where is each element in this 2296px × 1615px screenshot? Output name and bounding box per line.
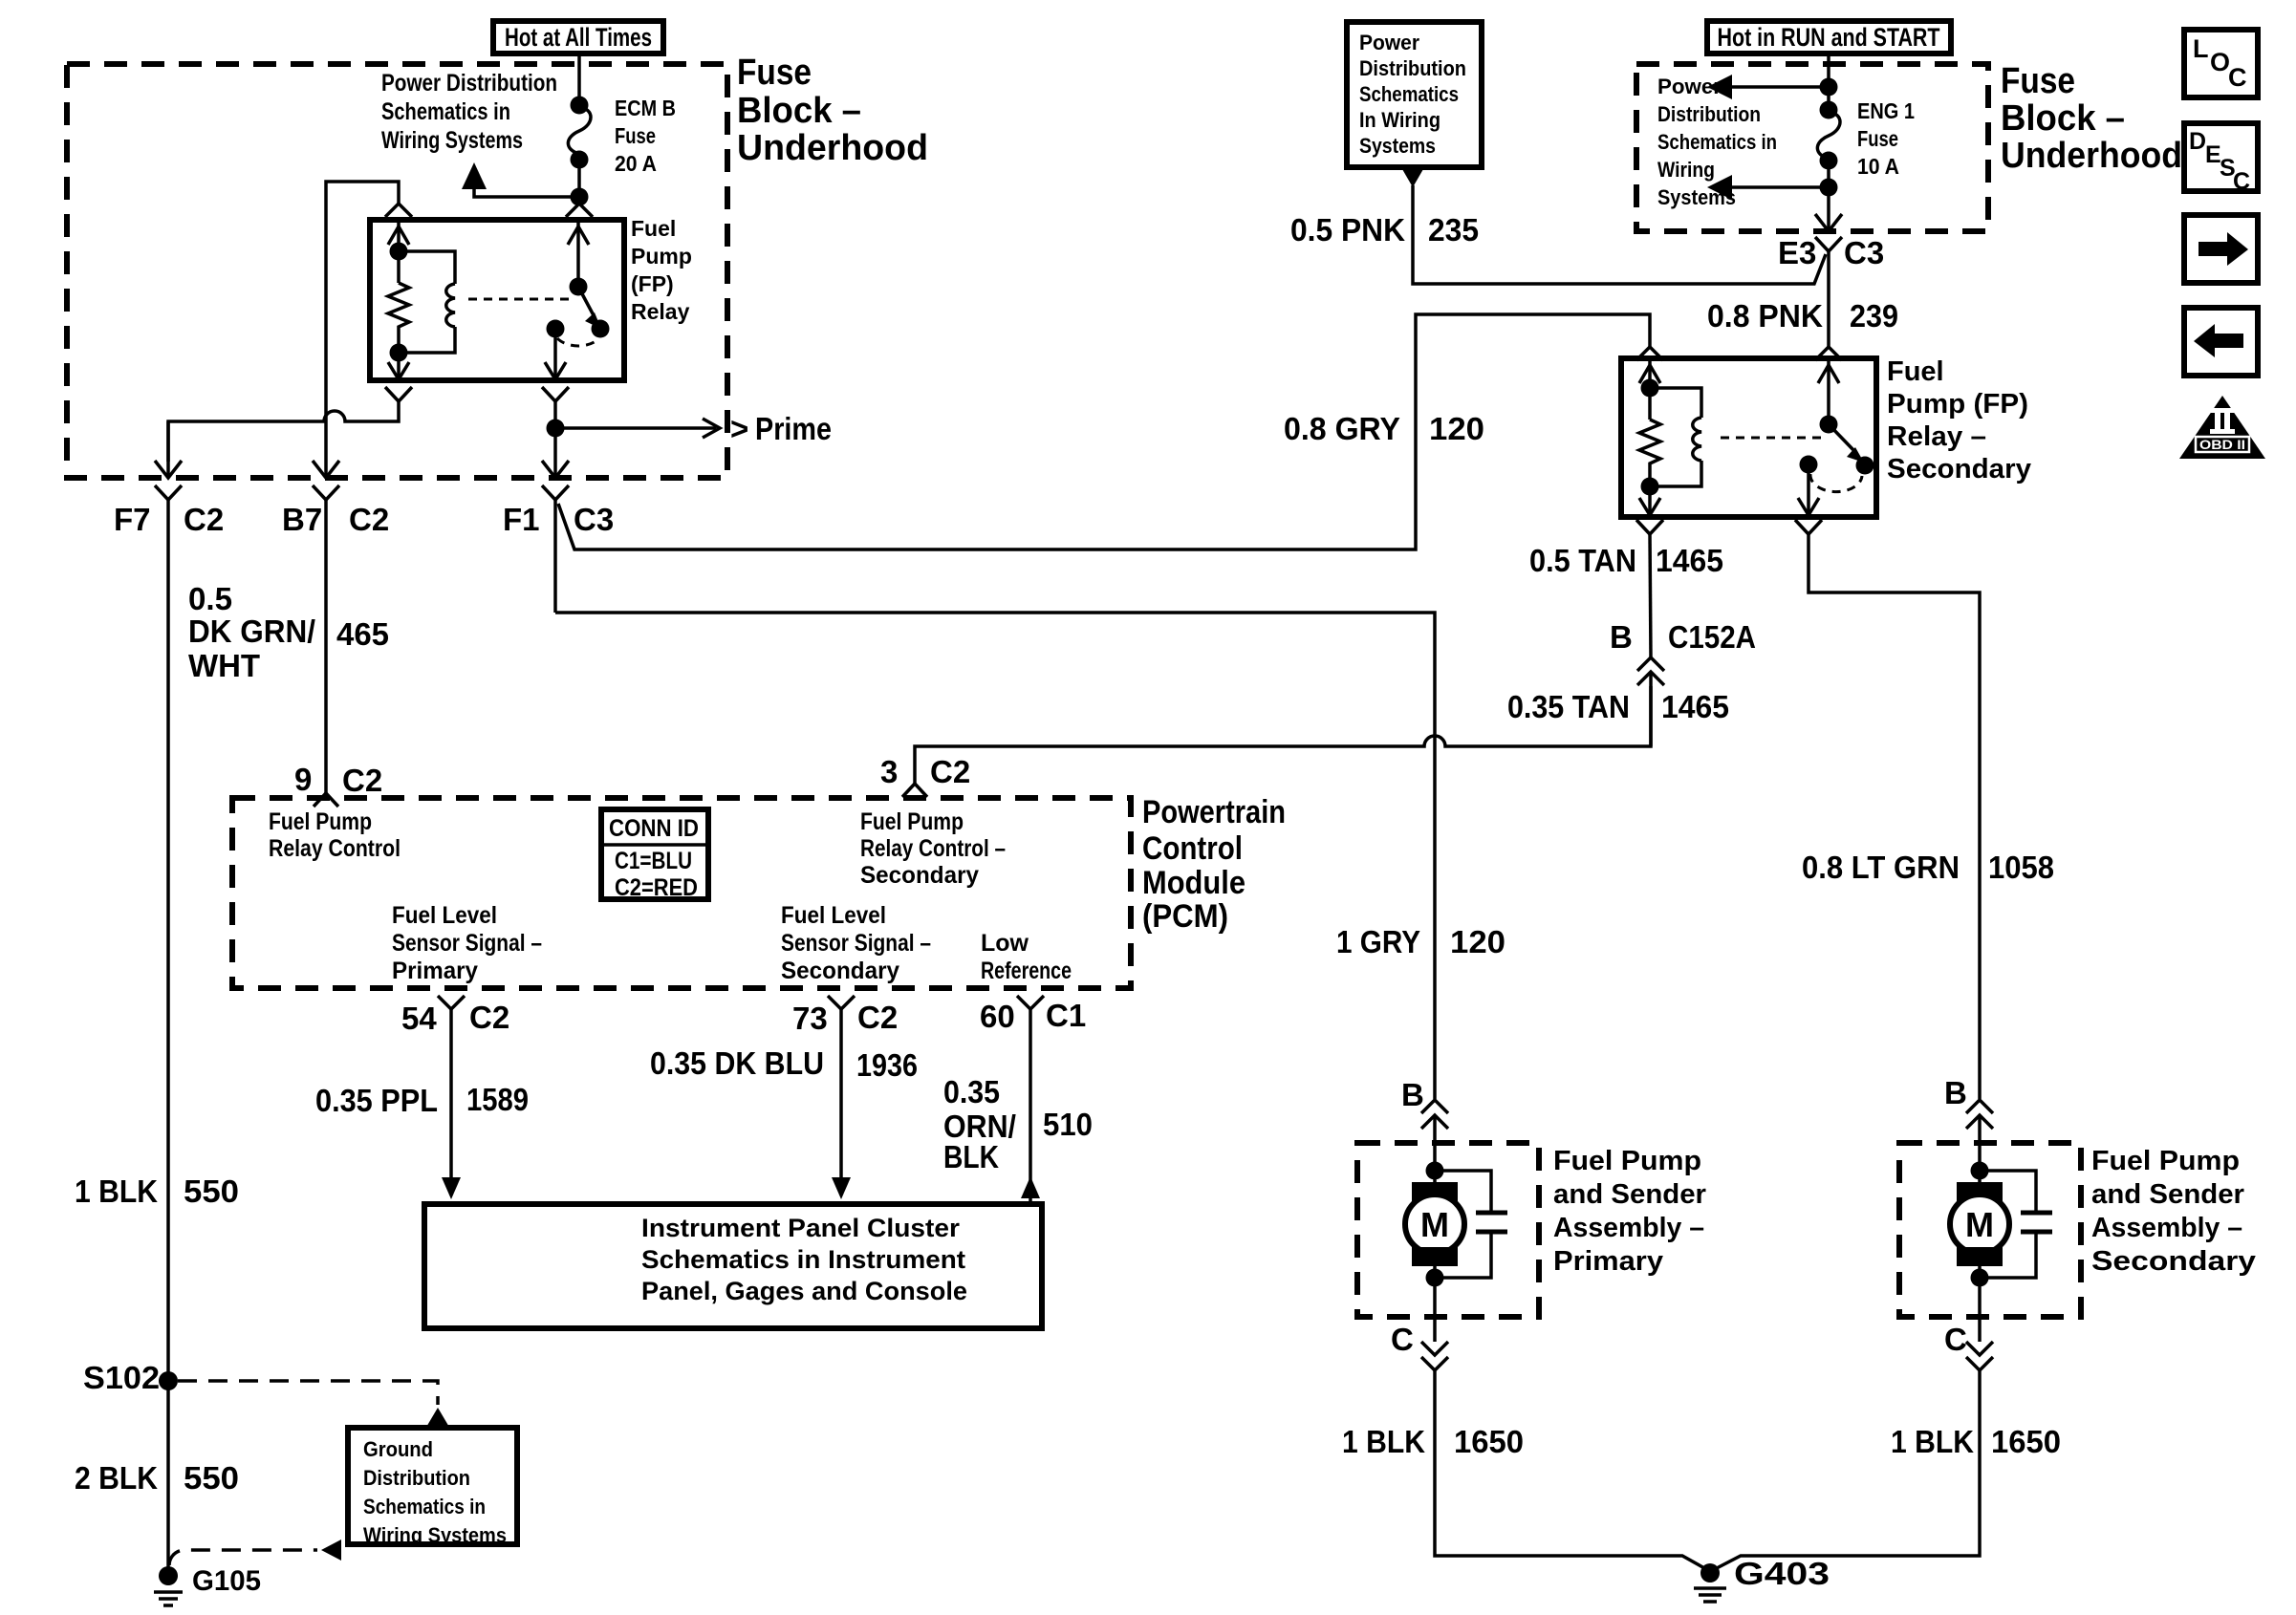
connector E3 C3 <box>1815 237 1842 347</box>
svg-text:Underhood: Underhood <box>737 128 928 168</box>
svg-text:Fuel Pump: Fuel Pump <box>2091 1146 2240 1176</box>
Hot in RUN and START box <box>1707 21 1951 54</box>
svg-text:1 BLK: 1 BLK <box>1891 1424 1974 1459</box>
svg-text:Fuel Pump: Fuel Pump <box>1553 1146 1701 1176</box>
svg-text:Pump: Pump <box>631 244 692 269</box>
labels F7 C2 B7 C2 <box>114 502 389 537</box>
splice S102 <box>83 1360 178 1395</box>
svg-text:Powertrain: Powertrain <box>1142 794 1286 830</box>
svg-text:550: 550 <box>184 1460 239 1496</box>
svg-text:Fuse: Fuse <box>615 123 656 148</box>
svg-text:1465: 1465 <box>1656 543 1723 578</box>
svg-text:Panel, Gages and Console: Panel, Gages and Console <box>641 1277 967 1305</box>
svg-text:235: 235 <box>1428 212 1479 248</box>
svg-text:Reference: Reference <box>981 958 1072 984</box>
svg-text:L: L <box>2193 34 2209 63</box>
labels B C152A <box>1610 619 1756 655</box>
svg-text:Schematics in: Schematics in <box>1657 130 1777 154</box>
PCM pin 73 wire with arrow <box>832 1009 851 1199</box>
svg-text:S102: S102 <box>83 1360 160 1395</box>
svg-text:Module: Module <box>1142 865 1245 901</box>
svg-text:1465: 1465 <box>1661 689 1729 724</box>
icon next arrow button <box>2184 215 2258 283</box>
wire relay1 pin to F7 with hop <box>168 401 399 462</box>
label Fuse Block Underhood left <box>737 53 928 168</box>
svg-text:Wiring Systems: Wiring Systems <box>363 1523 507 1547</box>
svg-text:120: 120 <box>1450 924 1505 959</box>
icon OBD II triangle <box>2179 396 2265 459</box>
svg-text:0.5: 0.5 <box>188 581 232 616</box>
svg-text:510: 510 <box>1043 1107 1093 1142</box>
svg-text:Underhood: Underhood <box>2001 136 2182 176</box>
svg-text:C2: C2 <box>342 763 382 798</box>
label 0.5 DK GRN WHT 465 <box>188 581 389 683</box>
svg-text:Fuse: Fuse <box>2001 61 2075 101</box>
label ENG 1 Fuse 10 A <box>1857 98 1915 179</box>
label 1 BLK 1650 secondary <box>1891 1424 2061 1459</box>
svg-text:Fuse: Fuse <box>737 53 812 93</box>
svg-text:C2=RED: C2=RED <box>615 874 698 901</box>
svg-text:B7: B7 <box>282 502 322 537</box>
connector C primary pump <box>1391 1317 1448 1370</box>
svg-text:1 BLK: 1 BLK <box>1342 1424 1425 1459</box>
icon DESC button <box>2184 123 2258 195</box>
svg-text:2 BLK: 2 BLK <box>75 1460 158 1496</box>
label 0.8 GRY 120 <box>1284 411 1484 446</box>
svg-text:Fuse: Fuse <box>1857 126 1898 151</box>
wire F1 through dashed edge <box>542 428 569 478</box>
svg-text:CONN ID: CONN ID <box>609 815 699 842</box>
svg-text:1058: 1058 <box>1988 850 2054 885</box>
svg-text:Fuel: Fuel <box>631 216 676 241</box>
svg-text:1650: 1650 <box>1991 1424 2061 1459</box>
svg-text:Systems: Systems <box>1359 134 1436 158</box>
wire B7 to PCM pin 9 <box>324 522 328 793</box>
svg-text:B: B <box>1401 1077 1424 1112</box>
svg-text:0.5 TAN: 0.5 TAN <box>1529 543 1636 578</box>
svg-text:Sensor Signal –: Sensor Signal – <box>392 930 542 957</box>
svg-text:DK GRN/: DK GRN/ <box>188 614 315 649</box>
svg-text:1 BLK: 1 BLK <box>75 1174 158 1209</box>
svg-text:9: 9 <box>294 762 312 797</box>
svg-text:Secondary: Secondary <box>860 862 979 889</box>
svg-text:239: 239 <box>1850 298 1898 334</box>
svg-text:OBD II: OBD II <box>2199 437 2245 452</box>
label 2 BLK 550 <box>75 1460 239 1496</box>
relay1 coil bottom node <box>388 344 409 380</box>
note Power Distribution Schematics left fuse block <box>381 70 557 154</box>
relay1 coil left branch <box>388 220 409 283</box>
connector PCM pin 3 <box>902 784 927 797</box>
svg-text:0.35: 0.35 <box>943 1074 1000 1109</box>
svg-text:Hot at All Times: Hot at All Times <box>505 23 652 52</box>
svg-text:>: > <box>730 411 748 446</box>
relay2 coil branch <box>1639 358 1660 420</box>
svg-text:D: D <box>2189 128 2206 155</box>
svg-text:0.35 TAN: 0.35 TAN <box>1507 689 1630 724</box>
wire PCM pin3 to 0.35 TAN run with hop <box>915 686 1651 784</box>
note Power Distribution Schematics right fuse block <box>1657 75 1777 209</box>
arrow F7 at dashed edge <box>155 421 182 478</box>
svg-text:54: 54 <box>401 1001 437 1036</box>
label 0.8 PNK 239 <box>1707 298 1898 334</box>
svg-text:WHT: WHT <box>188 648 260 683</box>
svg-text:C: C <box>1944 1322 1967 1357</box>
primary pump capacitor <box>1435 1171 1507 1278</box>
Power Distribution Schematics box top middle <box>1347 22 1482 167</box>
relay2 box Fuel Pump FP Relay Secondary <box>1621 358 1876 517</box>
svg-text:Instrument Panel Cluster: Instrument Panel Cluster <box>641 1214 961 1242</box>
svg-text:Wiring: Wiring <box>1657 158 1715 182</box>
upper branch arrow right fuse block <box>1707 75 1838 99</box>
svg-text:0.8 PNK: 0.8 PNK <box>1707 298 1823 334</box>
PCM pin9 function text <box>269 808 401 862</box>
label 0.35 TAN 1465 <box>1507 689 1729 724</box>
svg-text:Secondary: Secondary <box>781 958 899 984</box>
svg-text:0.5 PNK: 0.5 PNK <box>1290 212 1405 248</box>
connector B secondary pump <box>1944 1075 1993 1143</box>
ground G403 <box>1694 1556 1830 1602</box>
label 0.5 TAN 1465 <box>1529 543 1723 578</box>
connector C152A double chevron <box>1637 657 1664 746</box>
connector below relay2 switch pin <box>1795 520 1822 534</box>
dashed reference from S102 to ground distribution box <box>178 1381 450 1429</box>
connector chevron relay1 right pin <box>566 204 593 217</box>
svg-text:Block –: Block – <box>737 91 861 131</box>
label 0.8 LT GRN 1058 <box>1802 850 2054 885</box>
svg-text:C: C <box>2233 168 2250 195</box>
svg-text:Schematics in: Schematics in <box>363 1495 486 1518</box>
svg-text:120: 120 <box>1429 411 1484 446</box>
relay1 box Fuel Pump FP Relay <box>370 220 624 380</box>
svg-text:B: B <box>1610 619 1633 655</box>
instrument panel cluster box <box>424 1204 1042 1328</box>
svg-text:(FP): (FP) <box>631 271 674 296</box>
secondary pump capacitor <box>1980 1171 2052 1278</box>
svg-text:465: 465 <box>336 616 389 652</box>
svg-text:BLK: BLK <box>943 1139 999 1174</box>
svg-text:C3: C3 <box>1844 235 1884 270</box>
svg-text:F1: F1 <box>503 502 540 537</box>
labels 9 C2 pin9 <box>294 762 382 798</box>
connector PCM pin 9 <box>314 793 338 807</box>
svg-text:C2: C2 <box>857 1000 898 1035</box>
svg-text:1 GRY: 1 GRY <box>1336 924 1420 959</box>
svg-text:C2: C2 <box>349 502 389 537</box>
svg-text:0.35 PPL: 0.35 PPL <box>315 1083 438 1118</box>
relay1 switch <box>545 220 610 379</box>
secondary pump dashed box <box>1899 1143 2081 1317</box>
svg-text:Control: Control <box>1142 830 1243 867</box>
connector F1 <box>542 485 569 613</box>
svg-text:G403: G403 <box>1734 1556 1830 1591</box>
label 0.35 PPL 1589 <box>315 1082 529 1118</box>
svg-text:Fuel Pump: Fuel Pump <box>860 808 964 835</box>
label Fuse Block Underhood right <box>2001 61 2182 176</box>
connector chevron relay2 switch pin <box>1815 347 1842 360</box>
connector C secondary pump <box>1944 1317 1993 1370</box>
svg-text:M: M <box>1420 1205 1449 1244</box>
svg-text:Primary: Primary <box>392 958 478 984</box>
label 0.5 PNK 235 <box>1290 212 1479 248</box>
relay2 switch <box>1798 358 1874 515</box>
label Fuel Pump and Sender Assembly Primary <box>1553 1146 1706 1277</box>
labels 60 C1 <box>980 998 1086 1034</box>
ground distribution box <box>348 1428 517 1547</box>
labels F1 C3 <box>503 502 614 537</box>
svg-text:Relay: Relay <box>631 299 690 324</box>
svg-text:B: B <box>1944 1075 1967 1110</box>
relay2 dashed coil-switch link <box>1721 437 1821 440</box>
svg-text:ENG 1: ENG 1 <box>1857 98 1915 123</box>
Hot at All Times box <box>493 21 663 54</box>
secondary pump motor <box>1950 1143 2009 1317</box>
svg-text:Relay Control –: Relay Control – <box>860 835 1006 862</box>
connector chevron below relay1 switch pin <box>542 387 569 401</box>
lower branch arrow right fuse block <box>1707 161 1838 200</box>
PCM pin3 function text <box>860 808 1006 889</box>
svg-text:Secondary: Secondary <box>2091 1246 2256 1277</box>
svg-text:Schematics in: Schematics in <box>381 98 510 125</box>
wire relay2 coil to C152A 0.5 TAN <box>1650 534 1651 657</box>
connector chevron relay1 left pin <box>385 204 412 217</box>
svg-text:Power Distribution: Power Distribution <box>381 70 557 97</box>
relay1 resistor <box>388 283 409 353</box>
connector B7 <box>313 485 339 522</box>
svg-text:Sensor Signal –: Sensor Signal – <box>781 930 931 957</box>
primary pump dashed box <box>1357 1143 1539 1317</box>
svg-text:Secondary: Secondary <box>1887 454 2031 484</box>
svg-text:Assembly –: Assembly – <box>1553 1213 1704 1243</box>
svg-text:In Wiring: In Wiring <box>1359 108 1440 132</box>
svg-text:F7: F7 <box>114 502 151 537</box>
wire 0.5 PNK to E3 connector <box>1413 185 1826 284</box>
label Powertrain Control Module PCM <box>1142 794 1286 935</box>
svg-text:and Sender: and Sender <box>2091 1179 2244 1210</box>
svg-text:C1=BLU: C1=BLU <box>615 848 692 874</box>
svg-text:C2: C2 <box>469 1000 509 1035</box>
label 1 BLK 1650 primary <box>1342 1424 1524 1459</box>
relay1 switch output node <box>547 401 565 438</box>
wire secondary pump to G403 <box>1715 1370 1980 1569</box>
svg-text:Block –: Block – <box>2001 98 2125 139</box>
wire relay2 switch out 0.8 LT GRN to secondary pump <box>1809 534 1980 1099</box>
svg-text:C2: C2 <box>184 502 224 537</box>
svg-text:Pump (FP): Pump (FP) <box>1887 389 2028 420</box>
svg-text:Ground: Ground <box>363 1437 433 1461</box>
wire from Hot at All Times box down <box>577 54 581 105</box>
svg-text:Prime: Prime <box>755 411 832 446</box>
wire relay1 coil pin to B7 drop <box>326 182 399 462</box>
fuse block underhood dashed box left <box>67 64 727 478</box>
svg-text:1936: 1936 <box>856 1047 918 1083</box>
svg-text:C3: C3 <box>574 502 614 537</box>
svg-text:Fuel Level: Fuel Level <box>392 902 497 929</box>
branch wire with up arrow to power distribution note <box>462 162 579 197</box>
svg-text:3: 3 <box>880 754 898 789</box>
relay1 dashed coil-switch link <box>468 298 571 301</box>
label ECM B Fuse 20 A <box>615 96 676 176</box>
relay2 coil <box>1650 388 1701 486</box>
svg-text:C152A: C152A <box>1668 619 1756 655</box>
svg-text:Schematics: Schematics <box>1359 82 1459 106</box>
PCM low reference text <box>981 930 1072 984</box>
relay2 coil bottom node <box>1639 478 1660 516</box>
PCM dashed box <box>232 798 1131 988</box>
svg-text:Wiring Systems: Wiring Systems <box>381 127 523 154</box>
relay1 coil <box>399 251 455 353</box>
labels 54 C2 <box>401 1000 509 1036</box>
svg-text:Low: Low <box>981 930 1029 957</box>
labels 3 C2 pin3 <box>880 754 970 789</box>
label 0.35 ORN BLK 510 <box>943 1074 1093 1174</box>
svg-text:G105: G105 <box>192 1565 261 1597</box>
svg-text:0.8 LT GRN: 0.8 LT GRN <box>1802 850 1960 885</box>
svg-text:Fuel: Fuel <box>1887 356 1944 387</box>
svg-text:O: O <box>2210 48 2230 76</box>
svg-text:550: 550 <box>184 1174 239 1209</box>
svg-text:0.35 DK BLU: 0.35 DK BLU <box>650 1045 824 1081</box>
svg-text:Relay –: Relay – <box>1887 421 1986 452</box>
connector below relay2 coil pin <box>1636 520 1663 534</box>
svg-text:Assembly –: Assembly – <box>2091 1213 2242 1243</box>
label Fuel Pump and Sender Assembly Secondary <box>2091 1146 2256 1277</box>
connector B primary pump <box>1401 1077 1448 1143</box>
svg-text:Distribution: Distribution <box>363 1466 470 1490</box>
svg-text:Schematics in Instrument: Schematics in Instrument <box>641 1245 965 1274</box>
fuse ECM B 20A <box>568 97 591 169</box>
labels E3 C3 <box>1778 235 1884 270</box>
relay2 resistor <box>1639 420 1660 486</box>
PCM fuel level primary text <box>392 902 542 984</box>
wire to dashed edge with arrow <box>1815 187 1842 231</box>
wire Hot in RUN to fuse <box>1827 54 1830 110</box>
svg-text:20 A: 20 A <box>615 151 657 176</box>
svg-text:Distribution: Distribution <box>1657 102 1761 126</box>
connector pin 60 <box>1017 996 1044 1009</box>
svg-text:1650: 1650 <box>1454 1424 1524 1459</box>
svg-text:Fuel Level: Fuel Level <box>781 902 886 929</box>
svg-text:C: C <box>1391 1322 1414 1357</box>
svg-text:(PCM): (PCM) <box>1142 898 1228 935</box>
connector chevron relay2 coil pin <box>1636 347 1663 360</box>
svg-text:M: M <box>1965 1205 1994 1244</box>
svg-text:1589: 1589 <box>466 1082 529 1117</box>
svg-text:Distribution: Distribution <box>1359 56 1466 80</box>
svg-text:E3: E3 <box>1778 235 1816 270</box>
icon LOC button <box>2184 30 2258 97</box>
svg-text:C: C <box>2228 63 2247 92</box>
svg-text:Power: Power <box>1359 31 1419 54</box>
wire fuse to junction <box>571 160 589 206</box>
wire primary pump to G403 <box>1435 1370 1706 1569</box>
prime arrow <box>555 411 832 446</box>
icon back arrow button <box>2184 308 2258 376</box>
wire F1 to 1 GRY down to primary pump <box>555 613 1435 1099</box>
svg-text:Fuel Pump: Fuel Pump <box>269 808 372 835</box>
svg-text:and Sender: and Sender <box>1553 1179 1706 1210</box>
wire F7 to G105 <box>166 522 170 1576</box>
connector F7 <box>155 485 182 522</box>
connector pin 54 <box>438 996 465 1009</box>
fuse ENG1 10A <box>1817 101 1840 170</box>
dashed reference to ground distribution box lower <box>169 1540 341 1565</box>
primary pump motor <box>1405 1143 1464 1317</box>
arrow B7 at dashed edge <box>313 461 339 478</box>
PCM pin 60 wire with up arrow <box>1021 1009 1040 1202</box>
label 0.35 DK BLU 1936 <box>650 1045 918 1083</box>
svg-text:10 A: 10 A <box>1857 154 1899 179</box>
connector chevron below relay1 coil pin <box>385 387 412 401</box>
svg-text:Relay Control: Relay Control <box>269 835 401 862</box>
svg-text:C2: C2 <box>930 754 970 789</box>
svg-text:Hot in RUN and START: Hot in RUN and START <box>1718 23 1940 52</box>
label 1 GRY 120 <box>1336 924 1505 959</box>
svg-text:60: 60 <box>980 999 1015 1034</box>
svg-text:Primary: Primary <box>1553 1246 1663 1277</box>
CONN ID box <box>601 809 708 901</box>
labels 73 C2 <box>792 1000 898 1036</box>
fuse block underhood dashed box right <box>1636 64 1988 231</box>
PCM pin 54 wire with arrow <box>442 1009 461 1199</box>
svg-text:0.8 GRY: 0.8 GRY <box>1284 411 1400 446</box>
PCM fuel level secondary text <box>781 902 931 984</box>
ground G105 <box>154 1565 261 1605</box>
svg-text:ECM B: ECM B <box>615 96 676 120</box>
label Fuel Pump FP Relay <box>631 216 692 324</box>
label Fuel Pump FP Relay Secondary <box>1887 356 2031 484</box>
svg-text:C1: C1 <box>1046 998 1086 1033</box>
wire F1 splice to 0.8 GRY run to relay2 coil <box>558 314 1650 549</box>
svg-text:73: 73 <box>792 1001 828 1036</box>
arrow below power distribution box <box>1402 169 1423 187</box>
connector pin 73 <box>828 996 855 1009</box>
label 1 BLK 550 <box>75 1174 239 1209</box>
